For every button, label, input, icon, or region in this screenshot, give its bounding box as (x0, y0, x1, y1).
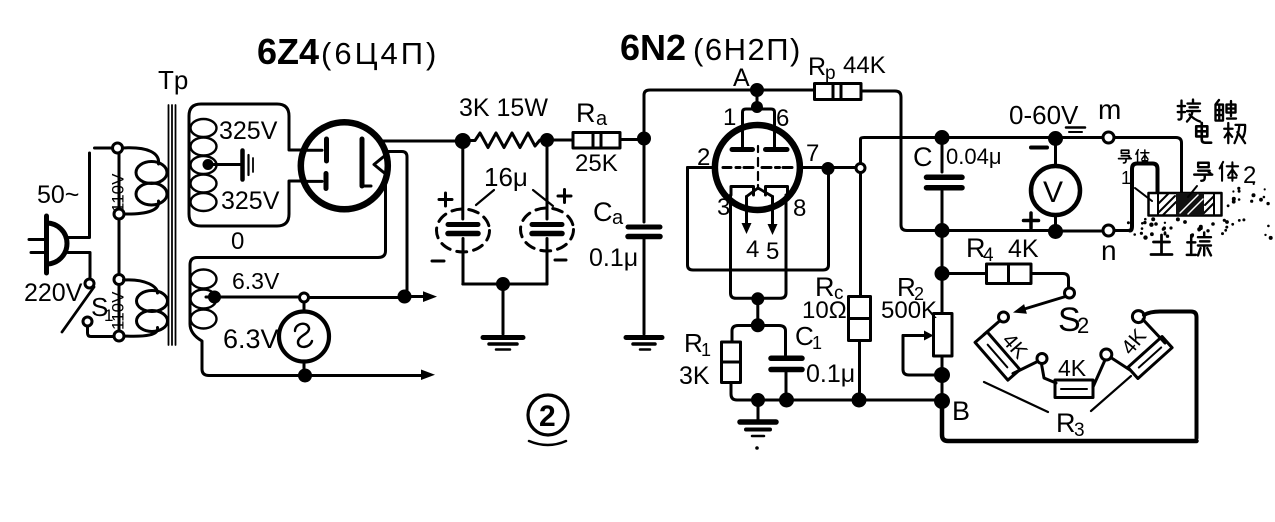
svg-text:0-60V: 0-60V (1009, 100, 1079, 130)
svg-text:m: m (1098, 94, 1121, 125)
svg-text:p: p (825, 63, 836, 84)
svg-text:220V: 220V (24, 279, 83, 307)
svg-text:R: R (1056, 408, 1076, 438)
svg-text:6.3V: 6.3V (223, 324, 279, 354)
svg-text:44K: 44K (843, 52, 886, 79)
svg-text:110V: 110V (109, 173, 128, 212)
svg-text:C: C (593, 197, 613, 227)
svg-text:4K: 4K (1058, 355, 1087, 381)
svg-text:A: A (733, 64, 750, 92)
svg-text:6Z4: 6Z4 (257, 31, 319, 72)
svg-text:R: R (808, 53, 826, 81)
svg-text:Tp: Tp (158, 65, 188, 95)
svg-text:C: C (913, 142, 933, 172)
svg-text:16μ: 16μ (484, 162, 528, 192)
svg-text:325V: 325V (221, 187, 280, 215)
svg-text:3: 3 (717, 194, 730, 221)
svg-text:3K: 3K (679, 362, 710, 390)
svg-text:110V: 110V (109, 291, 128, 330)
svg-text:6.3V: 6.3V (232, 268, 280, 294)
svg-text:1: 1 (1121, 168, 1131, 188)
svg-text:R: R (576, 98, 596, 128)
svg-text:25K: 25K (575, 150, 618, 177)
svg-text:0: 0 (231, 228, 244, 255)
svg-text:3: 3 (1074, 420, 1085, 441)
svg-text:B: B (952, 396, 970, 426)
svg-text:(6Ц4П): (6Ц4П) (321, 36, 439, 71)
svg-text:1: 1 (701, 340, 711, 360)
svg-text:4: 4 (746, 236, 759, 263)
svg-text:2: 2 (539, 400, 556, 433)
svg-text:6: 6 (776, 105, 789, 132)
svg-text:4K: 4K (997, 329, 1031, 363)
svg-text:V: V (1043, 176, 1063, 209)
svg-text:0.04μ: 0.04μ (946, 144, 1002, 169)
svg-text:2: 2 (697, 144, 710, 171)
svg-text:500K: 500K (881, 297, 937, 324)
svg-text:50~: 50~ (37, 181, 79, 209)
svg-text:5: 5 (766, 238, 779, 265)
svg-text:2: 2 (1243, 162, 1256, 189)
svg-text:4K: 4K (1117, 325, 1151, 359)
svg-text:4K: 4K (1008, 235, 1039, 263)
svg-text:325V: 325V (219, 117, 278, 145)
svg-text:R: R (684, 328, 703, 358)
svg-text:10Ω: 10Ω (802, 297, 847, 324)
svg-text:0.1μ: 0.1μ (806, 360, 855, 388)
svg-text:3K 15W: 3K 15W (459, 94, 548, 122)
svg-text:a: a (596, 108, 608, 130)
svg-text:1: 1 (723, 104, 736, 131)
svg-text:a: a (612, 207, 624, 229)
svg-text:8: 8 (793, 195, 806, 222)
svg-text:1: 1 (812, 333, 822, 353)
svg-text:4: 4 (983, 245, 994, 266)
svg-text:0.1μ: 0.1μ (589, 244, 638, 272)
svg-text:(6Н2П): (6Н2П) (693, 32, 802, 67)
svg-text:2: 2 (1077, 313, 1089, 338)
svg-text:7: 7 (806, 140, 819, 167)
svg-text:n: n (1101, 235, 1117, 266)
svg-text:C: C (795, 321, 814, 351)
svg-text:6N2: 6N2 (620, 27, 686, 68)
